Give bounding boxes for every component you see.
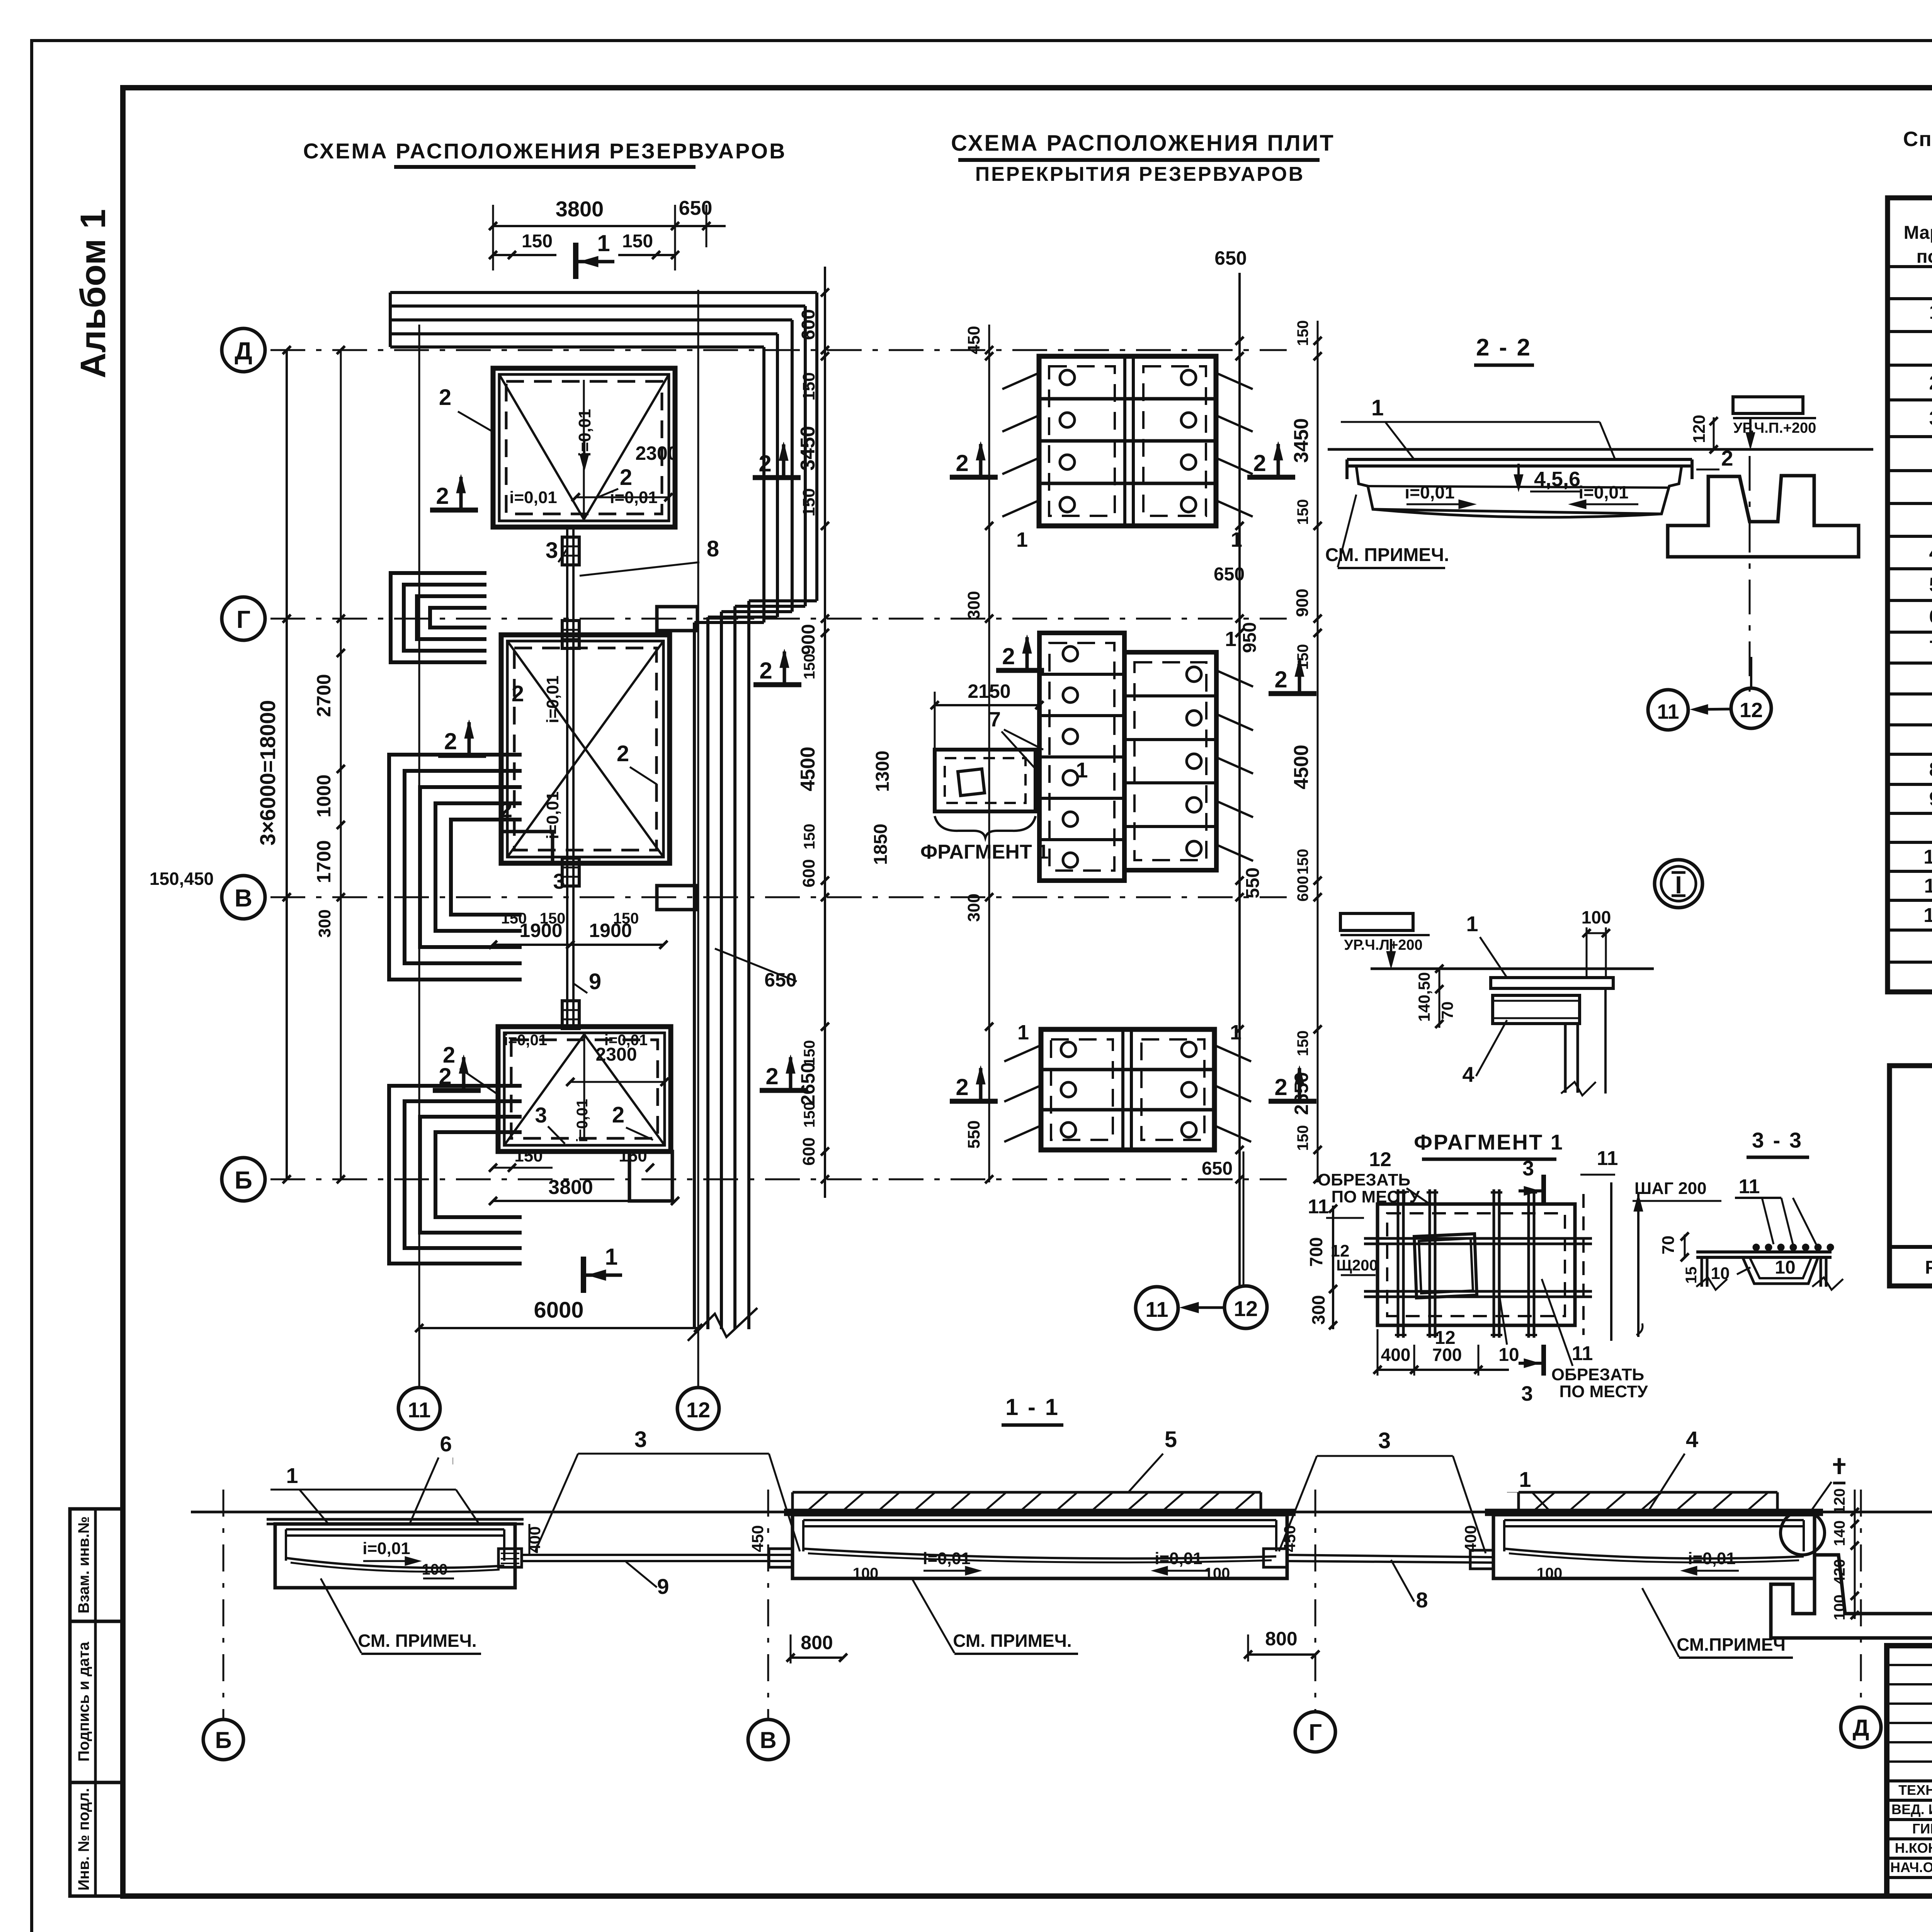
fragment section marks 3 [1541,1175,1546,1206]
svg-text:СМ. ПРИМЕЧ.: СМ. ПРИМЕЧ. [953,1631,1071,1651]
detail post [1564,1024,1567,1093]
steel consumption table [1889,1066,1932,1286]
svg-text:650: 650 [1214,564,1245,585]
axis 12 vertical [697,290,699,1388]
svg-text:800: 800 [801,1632,833,1653]
dim line x=2560 [988,325,990,1182]
detail channel (pos 4) [1493,995,1580,1024]
svg-text:ОБРЕЗАТЬ: ОБРЕЗАТЬ [1551,1365,1644,1384]
detail slab (pos 1) [1491,978,1613,988]
svg-text:10: 10 [1498,1345,1519,1365]
meander M3 [389,1086,522,1264]
svg-text:1: 1 [1016,528,1028,551]
svg-text:4,5,6: 4,5,6 [1534,468,1580,491]
svg-text:150: 150 [514,1146,543,1165]
2-2 cover slab [1347,458,1692,461]
svg-text:400: 400 [526,1526,544,1553]
axis line G [270,618,1287,620]
svg-text:550: 550 [1243,867,1263,898]
connecting pipe verticals [566,527,568,1027]
fragment main slab [1378,1204,1575,1325]
svg-text:3450: 3450 [797,426,819,471]
wall blocks at axis crossings [657,607,697,631]
svg-text:ТЕХНИК: ТЕХНИК [1898,1782,1932,1798]
svg-text:150: 150 [801,1102,818,1128]
svg-text:2: 2 [1274,1074,1287,1100]
svg-text:3: 3 [535,1103,547,1127]
trough 3 (hatched slab) [1519,1491,1777,1494]
svg-text:2: 2 [512,681,524,706]
svg-text:950: 950 [1240,622,1260,653]
bottom dims of plan [493,1200,675,1202]
svg-text:11: 11 [1145,1297,1168,1321]
top dim 3800/650 [493,225,726,227]
fragment rebars vertical [1397,1189,1400,1338]
meander M1 [391,573,486,662]
svg-text:150: 150 [613,910,639,927]
section mark 1 top [573,243,578,279]
svg-text:3: 3 [546,538,558,563]
secondary left dims [340,350,342,1179]
svg-text:1 - 1: 1 - 1 [1005,1394,1060,1420]
trough2 cover hatch [793,1491,1261,1494]
svg-text:Резервуары: Резервуары [1925,1257,1932,1278]
svg-text:10: 10 [1923,846,1932,868]
svg-text:1: 1 [1076,758,1088,782]
svg-text:УР.Ч.Л+200: УР.Ч.Л+200 [1344,937,1422,953]
svg-text:2: 2 [439,1063,451,1089]
svg-text:150: 150 [501,910,527,927]
svg-text:2: 2 [1929,372,1932,394]
svg-text:2: 2 [1253,450,1266,476]
svg-text:100: 100 [1204,1565,1230,1582]
axis line B [270,1179,1287,1180]
dim 800 near axis G [1248,1653,1315,1656]
fragment callout box [935,750,1036,811]
svg-text:8: 8 [707,536,719,561]
svg-text:1000: 1000 [313,774,335,817]
svg-text:650: 650 [1202,1158,1233,1179]
left dim line 3x6000=18000 [286,350,288,1179]
svg-text:Д: Д [1853,1715,1869,1741]
title block [1887,1646,1932,1896]
svg-text:3: 3 [1522,1157,1534,1180]
axis circle 11 [398,1388,440,1429]
fragment bottom dims [1378,1369,1509,1371]
svg-text:2: 2 [436,483,449,509]
svg-text:150: 150 [540,910,566,927]
svg-text:2700: 2700 [313,674,335,717]
svg-text:140,50: 140,50 [1415,972,1433,1022]
svg-text:В: В [235,884,252,912]
svg-text:ВЕД. ИНЖ: ВЕД. ИНЖ [1891,1801,1932,1817]
svg-text:100: 100 [1831,1595,1848,1621]
svg-text:10: 10 [1775,1257,1795,1278]
svg-text:550: 550 [964,1120,983,1148]
svg-text:70: 70 [1659,1236,1678,1255]
svg-text:В: В [760,1727,776,1753]
svg-text:2: 2 [1721,446,1733,470]
svg-text:Инв. № подл.: Инв. № подл. [75,1788,92,1890]
axis circle В [222,876,265,919]
section mark 1 bottom [581,1257,586,1293]
svg-text:7: 7 [989,708,1001,731]
svg-text:100: 100 [422,1561,448,1578]
svg-text:1: 1 [597,230,610,256]
svg-text:300: 300 [315,909,334,937]
fragment opening [1414,1234,1477,1298]
svg-text:11: 11 [408,1398,430,1422]
right foundation of 1-1 [1771,1555,1932,1638]
svg-text:11: 11 [1597,1147,1618,1170]
2-2 ground line [1328,448,1873,451]
svg-text:700: 700 [1306,1237,1326,1267]
svg-text:11: 11 [1657,700,1679,723]
pipe 8 between troughs 2-3 [1264,1549,1287,1567]
svg-text:11: 11 [1739,1175,1760,1198]
svg-text:2300: 2300 [635,442,678,464]
svg-text:600: 600 [1294,876,1311,902]
svg-text:800: 800 [1265,1628,1297,1650]
svg-text:12: 12 [1740,699,1763,722]
svg-text:2: 2 [617,741,629,766]
svg-text:Альбом 1: Альбом 1 [73,209,113,378]
svg-text:1: 1 [1519,1467,1531,1492]
2-2 foundation [1668,476,1859,557]
svg-text:1850: 1850 [871,824,891,865]
2-2 foundation axis [1749,456,1751,692]
3-3 top bar with rebar dots [1696,1250,1832,1253]
fragment right dashed edge [1582,1194,1585,1335]
svg-text:1: 1 [286,1463,298,1488]
svg-text:150: 150 [622,231,653,252]
svg-text:600: 600 [799,1137,818,1165]
svg-text:150,450: 150,450 [150,869,214,889]
dim line x=2135 with plan dims [824,267,826,1198]
svg-text:1: 1 [1466,912,1478,936]
svg-text:3: 3 [1378,1428,1391,1453]
svg-text:СХЕМА РАСПОЛОЖЕНИЯ РЕЗЕРВУАРОВ: СХЕМА РАСПОЛОЖЕНИЯ РЕЗЕРВУАРОВ [303,139,786,163]
svg-text:100: 100 [1582,907,1611,927]
svg-text:5: 5 [1929,574,1932,596]
fragment left dims [1332,1206,1334,1329]
svg-text:400: 400 [1381,1345,1411,1365]
left stamp boxes [70,1509,123,1896]
svg-text:ПО МЕСТУ: ПО МЕСТУ [1331,1187,1420,1206]
svg-text:3800: 3800 [556,197,604,221]
svg-text:3: 3 [1521,1382,1533,1405]
plate right dims [1317,321,1319,1182]
svg-text:150: 150 [801,824,818,850]
axis circle 12 [677,1388,719,1429]
svg-text:Подпись и дата: Подпись и дата [75,1641,92,1762]
svg-text:Взам. инв.№: Взам. инв.№ [75,1516,92,1613]
svg-text:2: 2 [759,451,771,476]
svg-text:Б: Б [215,1727,231,1753]
bottom axis lines and circles [223,1490,224,1719]
svg-text:2: 2 [439,385,451,410]
svg-text:2: 2 [956,1074,968,1100]
detail ground line [1371,968,1654,970]
svg-text:420: 420 [1831,1559,1848,1585]
svg-text:Спецификация к схемам располож: Спецификация к схемам расположения резер… [1903,128,1932,151]
svg-text:150: 150 [1294,1125,1311,1151]
fragment rebars horizontal [1364,1237,1592,1240]
svg-text:150: 150 [1294,1031,1311,1056]
svg-text:11: 11 [1924,875,1932,897]
1-1 ground line [191,1511,1932,1514]
svg-text:3×6000=18000: 3×6000=18000 [255,700,280,846]
svg-text:150: 150 [1294,644,1311,670]
tank T2 plan [501,635,670,863]
plate group 3 [1041,1029,1214,1150]
svg-text:4500: 4500 [797,747,819,791]
svg-text:3800: 3800 [548,1176,593,1199]
svg-text:8: 8 [1929,759,1932,781]
svg-text:2650: 2650 [797,1062,819,1105]
plate group 2 [1039,633,1124,881]
svg-text:11: 11 [1572,1342,1593,1365]
svg-text:70: 70 [1438,1002,1456,1020]
dim 1900 1900 [493,944,663,946]
top wall band of plan [389,293,392,347]
svg-text:600: 600 [799,859,818,887]
svg-text:2: 2 [620,465,632,490]
svg-text:650: 650 [1214,247,1247,269]
svg-text:ФРАГМЕНТ 1: ФРАГМЕНТ 1 [920,841,1049,863]
svg-text:Б: Б [235,1166,252,1194]
svg-text:i=0,01: i=0,01 [543,791,562,839]
svg-text:12: 12 [1369,1148,1391,1171]
svg-text:10: 10 [1711,1264,1730,1283]
svg-text:12: 12 [1923,904,1932,927]
svg-text:120: 120 [1690,415,1709,443]
svg-text:1: 1 [1017,1021,1029,1044]
svg-text:300: 300 [964,591,983,619]
svg-text:600: 600 [798,309,819,340]
pipe 9 between troughs [498,1549,522,1567]
svg-text:СХЕМА РАСПОЛОЖЕНИЯ ПЛИТ: СХЕМА РАСПОЛОЖЕНИЯ ПЛИТ [951,131,1335,156]
svg-text:ОБРЕЗАТЬ: ОБРЕЗАТЬ [1318,1170,1410,1189]
svg-text:2: 2 [759,658,772,684]
svg-text:6000: 6000 [534,1298,583,1323]
svg-text:ШАГ 200: ШАГ 200 [1634,1179,1707,1198]
svg-text:450: 450 [964,326,983,354]
svg-text:i=0,01: i=0,01 [509,488,557,507]
circles 11 <- 12 (plate axes) [1648,690,1688,730]
svg-text:2300: 2300 [596,1044,637,1065]
circled I detail mark [1655,860,1702,908]
svg-text:Г: Г [1309,1719,1322,1745]
circle I detail mark on 1-1 [1781,1511,1825,1555]
svg-text:120: 120 [1831,1488,1848,1514]
svg-text:2: 2 [956,450,968,476]
tank T1 plan [493,368,675,527]
svg-text:150: 150 [799,372,818,400]
svg-text:150: 150 [619,1146,647,1165]
svg-text:ПЕРЕКРЫТИЯ РЕЗЕРВУАРОВ: ПЕРЕКРЫТИЯ РЕЗЕРВУАРОВ [975,163,1305,185]
dim 800 near axis V [791,1656,843,1659]
tank T3 plan [498,1027,671,1151]
svg-text:6: 6 [1929,605,1932,628]
svg-text:i=0,01: i=0,01 [923,1549,971,1568]
svg-text:1: 1 [1225,628,1236,651]
svg-text:Г: Г [236,605,250,633]
svg-text:150: 150 [799,488,818,516]
svg-text:i=0,01: i=0,01 [1405,482,1454,502]
svg-text:СМ. ПРИМЕЧ.: СМ. ПРИМЕЧ. [1325,545,1449,565]
axis circle Г [222,597,265,640]
svg-text:i=0,01: i=0,01 [543,675,562,723]
svg-text:2650: 2650 [1291,1072,1312,1115]
3-3 stirrup [1743,1257,1818,1284]
svg-text:150: 150 [1294,320,1311,346]
svg-text:2: 2 [444,728,457,754]
fragment dim arrow right [1637,1192,1639,1337]
svg-text:2150: 2150 [968,680,1010,702]
svg-text:300: 300 [964,893,983,922]
svg-text:4: 4 [1462,1062,1474,1087]
svg-text:150: 150 [522,231,553,252]
svg-text:100: 100 [853,1565,879,1582]
svg-text:6: 6 [440,1432,452,1456]
plate group 1 [1039,356,1216,526]
svg-text:i=0,01: i=0,01 [574,1099,591,1142]
2-2 trough body [1347,466,1692,514]
svg-text:2: 2 [612,1102,624,1128]
svg-text:4: 4 [1686,1427,1698,1452]
svg-text:3: 3 [1929,407,1932,430]
svg-text:900: 900 [798,624,819,655]
svg-text:300: 300 [1308,1295,1328,1325]
svg-text:12: 12 [1331,1242,1350,1260]
svg-text:150: 150 [801,654,818,680]
svg-text:i=0,01: i=0,01 [504,1032,547,1049]
svg-text:9: 9 [1929,788,1932,810]
svg-text:ГИП: ГИП [1912,1821,1932,1837]
svg-text:12: 12 [1435,1328,1455,1348]
svg-text:3: 3 [634,1427,647,1452]
svg-text:Д: Д [235,337,252,365]
svg-text:1300: 1300 [872,751,893,792]
svg-text:140: 140 [1831,1520,1848,1546]
plate scheme section marks 2 [950,475,998,480]
svg-text:900: 900 [1293,588,1312,617]
svg-text:4: 4 [1929,542,1932,564]
svg-text:450: 450 [1281,1525,1299,1552]
svg-text:i=0,01: i=0,01 [1578,482,1628,502]
svg-text:150: 150 [801,1040,818,1066]
plate dim line x=3208 [1238,273,1241,1287]
svg-text:i=0,01: i=0,01 [362,1539,410,1558]
svg-text:1: 1 [1929,301,1932,323]
svg-text:1: 1 [605,1244,617,1270]
svg-text:3450: 3450 [1290,418,1313,463]
svg-text:2 - 2: 2 - 2 [1476,334,1532,361]
svg-text:4500: 4500 [1290,745,1313,789]
wall band break mark bottom [688,1308,757,1341]
dim 6000 [419,1327,698,1329]
svg-text:450: 450 [748,1525,767,1552]
axis circle Б [222,1158,265,1201]
plate scheme circles 11 12 [1136,1287,1178,1329]
specification table [1888,198,1932,992]
svg-text:150: 150 [1294,849,1311,875]
svg-text:УР.Ч.П.+200: УР.Ч.П.+200 [1733,420,1816,436]
svg-text:9: 9 [657,1574,669,1599]
level mark УР.Ч.Л+200 [1340,913,1413,930]
svg-text:9: 9 [589,969,601,994]
svg-text:2: 2 [500,797,512,822]
svg-text:8: 8 [1416,1588,1428,1612]
svg-text:i=0,01: i=0,01 [1688,1549,1736,1568]
axis line D [270,349,1287,351]
svg-text:12: 12 [1234,1296,1258,1321]
level mark УР.Ч.П.+200 [1733,397,1803,413]
svg-text:НАЧ.ОТЭП: НАЧ.ОТЭП [1890,1859,1932,1875]
svg-text:12: 12 [686,1398,710,1422]
trough 1 (bottom section) [275,1524,515,1588]
svg-text:5: 5 [1165,1427,1177,1452]
svg-text:1700: 1700 [313,840,335,883]
svg-text:100: 100 [1537,1565,1563,1582]
svg-text:Марка,: Марка, [1904,223,1932,243]
svg-text:2: 2 [765,1063,778,1089]
axis line V [270,896,1287,898]
svg-text:2: 2 [1274,667,1287,692]
svg-text:i=0,01: i=0,01 [1155,1549,1202,1568]
svg-text:ПО МЕСТУ: ПО МЕСТУ [1559,1382,1648,1401]
svg-text:1: 1 [1371,395,1384,420]
svg-text:ФРАГМЕНТ 1: ФРАГМЕНТ 1 [1414,1130,1564,1154]
svg-text:400: 400 [1461,1525,1480,1552]
svg-text:СМ. ПРИМЕЧ.: СМ. ПРИМЕЧ. [358,1631,476,1651]
svg-text:I: I [1836,1453,1843,1479]
svg-text:11: 11 [1308,1196,1329,1218]
1-1 right dims [1854,1490,1856,1619]
axis circle Д [222,328,265,372]
svg-text:поз.: поз. [1917,247,1932,267]
svg-text:15: 15 [1683,1267,1700,1284]
svg-text:2: 2 [1002,643,1015,669]
svg-text:3 - 3: 3 - 3 [1752,1128,1803,1152]
meander M2 [389,755,522,980]
svg-text:7: 7 [1929,637,1932,659]
svg-text:Н.КОНТР.: Н.КОНТР. [1895,1840,1932,1856]
section marks 2 in plan [430,508,478,513]
svg-text:150: 150 [1294,499,1311,525]
axis 11 vertical [418,325,420,1388]
